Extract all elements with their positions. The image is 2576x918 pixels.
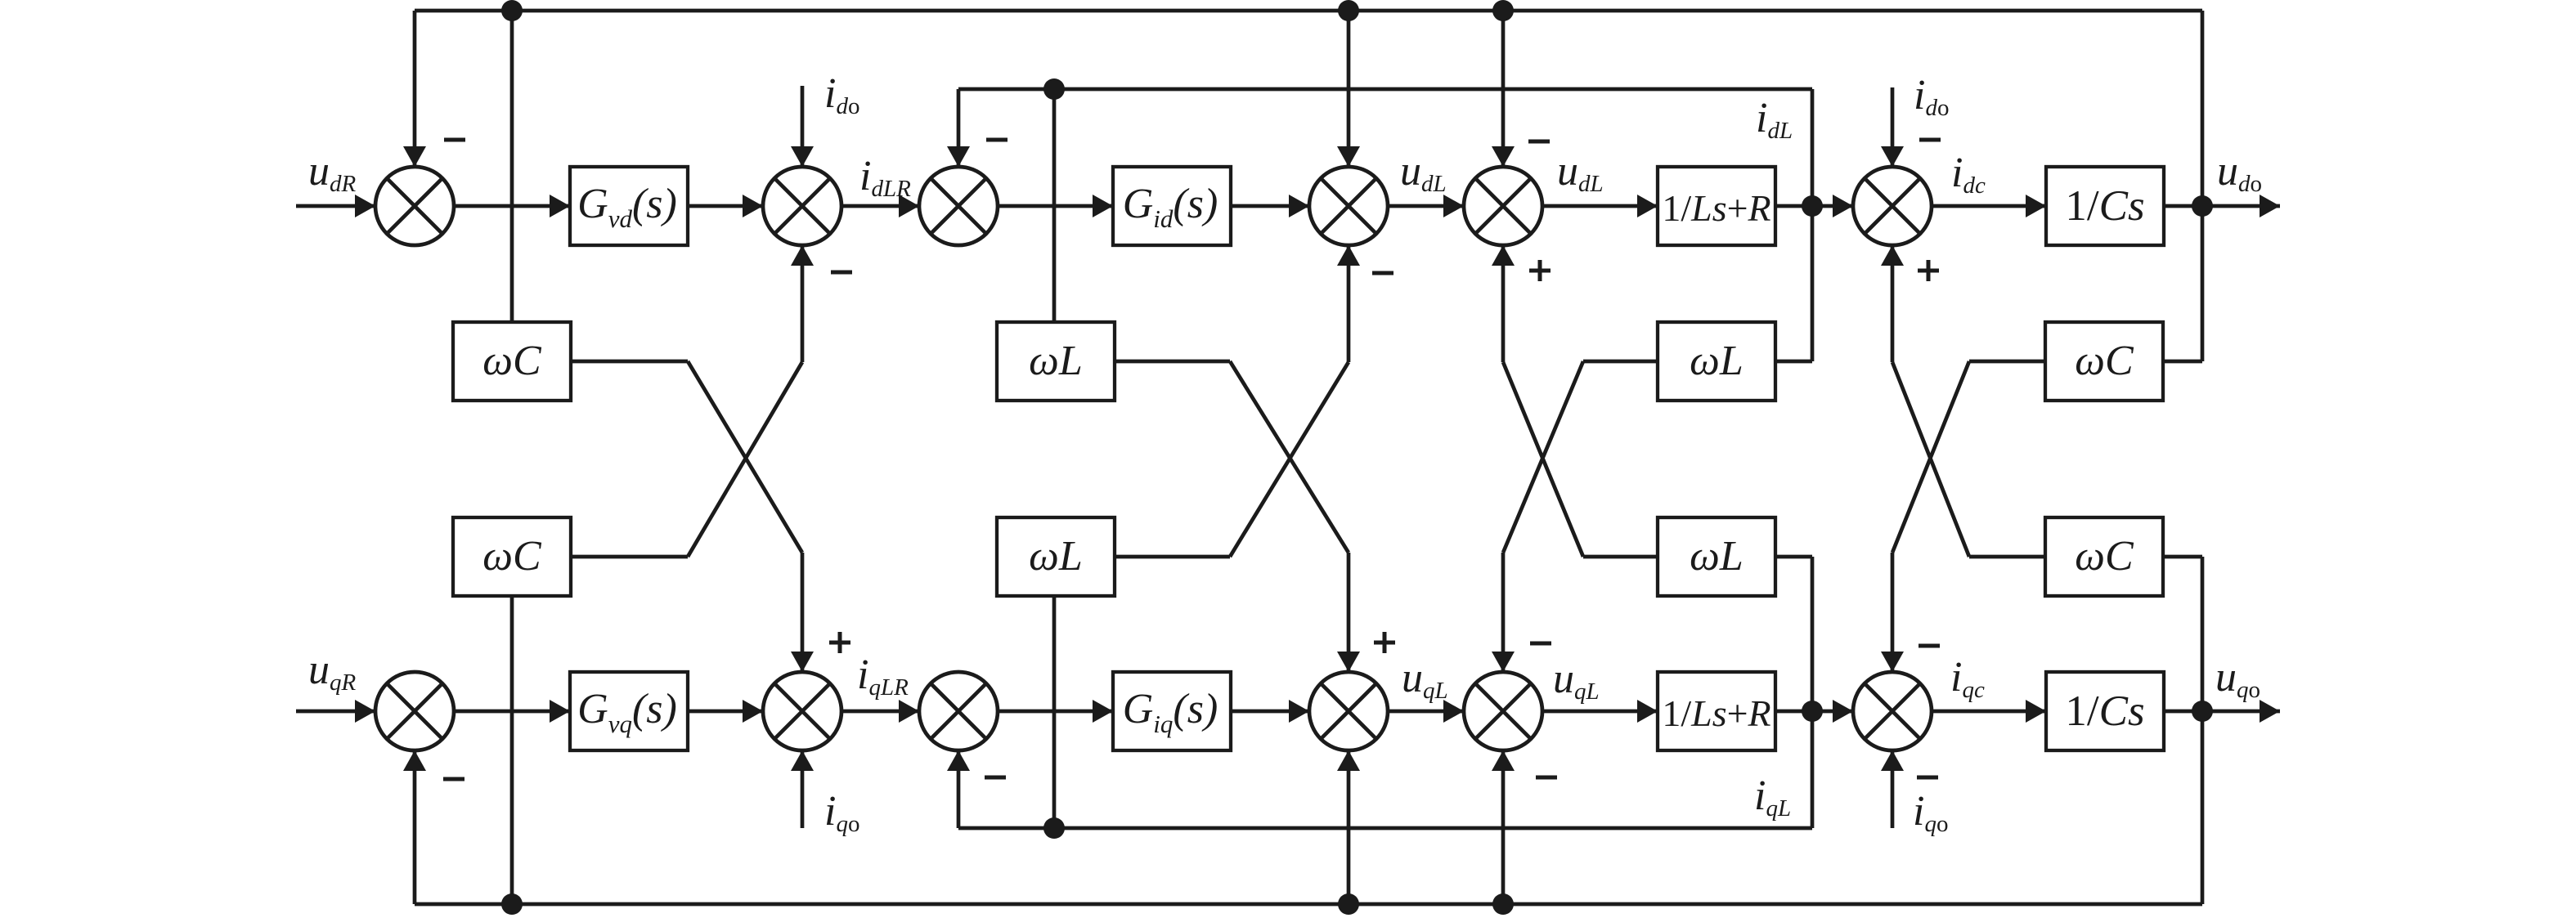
svg-text:ωC: ωC	[482, 533, 542, 580]
svg-text:1/Cs: 1/Cs	[2065, 687, 2144, 735]
svg-text:ωL: ωL	[1029, 338, 1083, 384]
svg-text:ωL: ωL	[1690, 533, 1744, 580]
svg-text:ωL: ωL	[1029, 533, 1083, 580]
svg-text:ωC: ωC	[2075, 533, 2134, 580]
svg-text:1/Ls+R: 1/Ls+R	[1662, 692, 1770, 734]
svg-text:ωC: ωC	[482, 338, 542, 384]
svg-text:1/Ls+R: 1/Ls+R	[1662, 187, 1770, 229]
svg-text:ωC: ωC	[2075, 338, 2134, 384]
svg-text:ωL: ωL	[1690, 338, 1744, 384]
svg-text:1/Cs: 1/Cs	[2065, 182, 2144, 230]
